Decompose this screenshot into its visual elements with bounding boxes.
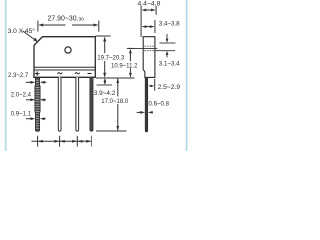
polarity symbol minus (88, 73, 92, 75)
dim 3.1~3.4: lower extension (155, 50, 175, 52)
lead exit line E (127, 47, 157, 49)
dim 2.3~2.7 arrows (26, 81, 31, 83)
table border left (blue) (5, 0, 7, 151)
pin 4 (90, 77, 93, 131)
dim 0.9~1.1 arrows (26, 118, 31, 120)
tick pin3 (76, 136, 78, 147)
dim 10.9~11.2: vertical line with arrows (129, 52, 131, 75)
dim 3.1~3.4: up arrow (166, 55, 168, 58)
svg-text:4.4~4.8: 4.4~4.8 (138, 1, 161, 8)
svg-text:27.90~30.30: 27.90~30.30 (48, 15, 85, 22)
dim 4.4~4.8: right tick (155, 6, 157, 15)
polarity symbol tilde 2 (75, 73, 80, 74)
dim 4.4~4.8: line with arrows (145, 9, 153, 11)
tick pin1 (37, 136, 39, 147)
extension line C (pin end) (96, 130, 127, 132)
pitch arrows span3 (78, 140, 83, 143)
mounting hole (circle) (65, 47, 71, 53)
label 10.9~11.2 (110, 61, 138, 68)
tick pin4 (91, 136, 93, 147)
svg-text:0.9~1.1: 0.9~1.1 (11, 111, 32, 117)
front view: package body outline with chamfered corner (34, 37, 95, 78)
dim 19.7~20.3: vertical line with arrows (104, 40, 106, 54)
tick pin2 (59, 136, 61, 147)
svg-text:2.5~2.9: 2.5~2.9 (158, 84, 181, 91)
polarity symbol plus (35, 71, 40, 75)
dim 10.9~11.2: T-bar (127, 47, 134, 49)
extension line A (body bottom, right) (96, 77, 135, 79)
svg-text:2.3~2.7: 2.3~2.7 (8, 73, 29, 79)
svg-text:3.0 X 45°: 3.0 X 45° (8, 27, 36, 35)
table border right (blue) (186, 0, 188, 151)
svg-text:3.4~3.8: 3.4~3.8 (159, 20, 180, 27)
dim 27.90~30.30: arrow left (42, 24, 66, 26)
dim 17.0~18.0 vertical line (117, 78, 119, 130)
dim 2.5~2.9: arrows (148, 85, 151, 87)
pin 3 (76, 77, 79, 131)
dim 3.1~3.4: upper extension (160, 42, 176, 44)
dim 27.90~30.30: extension ticks (37, 21, 39, 32)
bottom pitch dimension line (32, 140, 92, 142)
side view body (143, 37, 155, 78)
dim 3.4~3.8: line with arrows (145, 26, 152, 28)
pin 1 (hatched lead) (35, 77, 40, 131)
svg-text:0.6~0.8: 0.6~0.8 (149, 100, 170, 107)
svg-text:3.9~4.2: 3.9~4.2 (94, 90, 116, 97)
svg-text:2.0~2.4: 2.0~2.4 (11, 92, 32, 98)
dim 2.0~2.4 arrows (26, 99, 31, 101)
svg-text:3.1~3.4: 3.1~3.4 (159, 61, 180, 68)
pitch arrows span1 (38, 140, 43, 143)
hidden heatsink dashed line 2 (144, 50, 154, 52)
label 17.0~18.0 (101, 97, 128, 105)
hidden heatsink dashed line 1 (144, 45, 154, 47)
dim 4.4~4.8: left tick (long) (140, 6, 142, 37)
dim 2.5~2.9: tick (154, 79, 156, 91)
svg-text:10.9~11.2: 10.9~11.2 (111, 63, 138, 69)
svg-text:17.0~18.0: 17.0~18.0 (101, 99, 129, 105)
extension line B (seating) (97, 84, 113, 86)
dim 3.4~3.8: right tick (154, 20, 156, 33)
band line 2 (34, 69, 95, 71)
svg-text:19.7~20.3: 19.7~20.3 (97, 55, 125, 61)
pin 2 (58, 77, 61, 131)
leader arrow to chamfer (23, 31, 36, 40)
polarity symbol tilde 1 (57, 73, 62, 74)
dim 19.7~20.3: top T-bar (96, 35, 111, 37)
side view pin (145, 77, 148, 131)
band line 1 (34, 66, 95, 68)
pitch arrows span2 (60, 140, 65, 143)
dim 0.6~0.8: arrows (137, 111, 142, 113)
dim 3.1~3.4: down arrow (166, 34, 168, 40)
dim 3.9~4.2 arrows (104, 79, 106, 84)
dim 27.90~30.30: arrow right (72, 24, 95, 26)
